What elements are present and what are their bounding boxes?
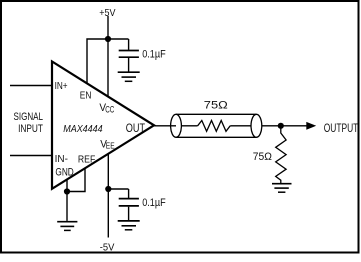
svg-text:0.1µF: 0.1µF	[142, 48, 166, 60]
svg-text:-5V: -5V	[100, 242, 115, 253]
svg-text:SIGNAL: SIGNAL	[14, 111, 44, 123]
svg-text:EN: EN	[80, 90, 92, 101]
wire REF pin down	[67, 168, 85, 191]
ground (C1)	[118, 72, 140, 81]
svg-text:0.1µF: 0.1µF	[142, 197, 166, 209]
svg-text:REF: REF	[78, 154, 95, 165]
svg-text:EE: EE	[106, 141, 115, 150]
wire VCC	[107, 39, 109, 97]
svg-text:INPUT: INPUT	[18, 123, 43, 135]
wire OUT to coax	[154, 125, 176, 127]
wire +5V vertical	[107, 16, 109, 39]
junction dot +5V	[105, 36, 111, 42]
resistor R1 75ohm (coax)	[198, 121, 231, 132]
wire IN- input	[10, 155, 52, 157]
junction dot GND/REF	[64, 188, 70, 194]
svg-text:75Ω: 75Ω	[204, 99, 228, 111]
label SIGNAL INPUT	[14, 111, 44, 135]
svg-text:CC: CC	[105, 104, 114, 114]
coax cable body	[176, 114, 256, 137]
svg-text:IN+: IN+	[55, 81, 68, 92]
capacitor C1 0.1uF	[119, 39, 139, 72]
wire inside coax left	[181, 125, 197, 127]
arrow OUTPUT	[306, 122, 316, 130]
wire VEE down	[107, 154, 109, 238]
capacitor C2 0.1uF	[119, 189, 139, 220]
wire inside coax right	[230, 125, 251, 127]
svg-text:75Ω: 75Ω	[253, 151, 272, 163]
coax right ellipse	[251, 114, 262, 137]
junction dot output	[278, 123, 284, 129]
ground (C2)	[118, 221, 140, 230]
wire GND pin down	[66, 180, 68, 221]
svg-text:OUT: OUT	[126, 121, 145, 135]
wire IN+ input	[10, 85, 52, 87]
svg-text:OUTPUT: OUTPUT	[324, 121, 359, 135]
ground (R2)	[272, 184, 292, 193]
svg-text:IN-: IN-	[55, 154, 68, 165]
svg-text:GND: GND	[55, 166, 74, 178]
wire coax to output	[262, 125, 307, 127]
svg-text:MAX4444: MAX4444	[63, 124, 103, 135]
resistor R2 75ohm termination	[276, 128, 286, 184]
ground (GND/REF)	[57, 222, 77, 231]
junction dot VEE	[105, 186, 111, 192]
wire +5V rail	[87, 39, 129, 84]
op-amp U1 MAX4444	[52, 62, 154, 189]
coax left ellipse	[171, 114, 182, 137]
wire VEE rail to C2	[108, 188, 128, 190]
